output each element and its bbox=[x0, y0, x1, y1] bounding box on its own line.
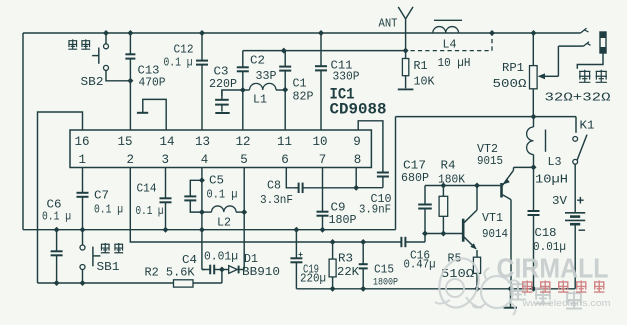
label C12 bbox=[174, 44, 194, 57]
svg-text:0.1 µ: 0.1 µ bbox=[94, 204, 123, 217]
svg-text:1800P: 1800P bbox=[373, 278, 398, 289]
node R3 bottom bbox=[330, 286, 336, 292]
label 0.1 µ (C6) bbox=[42, 211, 71, 224]
capacitor C17 bbox=[418, 186, 432, 234]
diode D1 BB910 varactor bbox=[222, 266, 244, 274]
svg-text:SB2: SB2 bbox=[81, 76, 104, 89]
capacitor C8 bbox=[293, 183, 356, 193]
capacitor C10 bbox=[377, 170, 389, 188]
label SB1 bbox=[97, 261, 120, 274]
svg-text:+: + bbox=[298, 250, 303, 260]
pin numbers bottom row 1-8 bbox=[79, 153, 362, 167]
label L4 bbox=[443, 39, 457, 52]
resistor R5 bbox=[473, 257, 480, 289]
wire VT2 emitter to L3 bottom bbox=[514, 166, 534, 168]
svg-text:0.1 µ: 0.1 µ bbox=[136, 205, 164, 218]
capacitor C3 bbox=[215, 90, 229, 112]
svg-text:C4: C4 bbox=[182, 254, 197, 267]
wire dashed bypass around L4 bbox=[411, 34, 493, 51]
svg-text:www.elecfans.com: www.elecfans.com bbox=[521, 298, 610, 309]
resistor R2 bbox=[174, 280, 194, 287]
antenna ANT bbox=[398, 7, 413, 51]
svg-text:330P: 330P bbox=[333, 71, 360, 84]
label D1 bbox=[244, 253, 258, 266]
label 0.01µ bbox=[204, 251, 238, 264]
wire pin 8 bbox=[355, 168, 357, 188]
watermark 电子发烧友 red hanzi bbox=[522, 280, 605, 292]
svg-text:14: 14 bbox=[159, 135, 174, 149]
wire bus B jog up to base line bbox=[424, 234, 426, 243]
svg-text:6: 6 bbox=[281, 153, 289, 167]
ground (bus C) bbox=[504, 289, 518, 308]
wire pin 3 / capacitor C14 bbox=[160, 168, 172, 230]
capacitor C13 bbox=[125, 33, 135, 130]
label 510Ω bbox=[441, 268, 474, 281]
svg-text:K1: K1 bbox=[580, 120, 595, 133]
wire left vertical from top bus bbox=[22, 33, 24, 230]
transistor VT2 9015 (PNP) bbox=[502, 167, 514, 288]
svg-text:2: 2 bbox=[127, 153, 135, 167]
svg-text:500Ω: 500Ω bbox=[493, 78, 527, 91]
resistor R1 bbox=[402, 51, 408, 89]
label L3 bbox=[548, 156, 562, 169]
wire riser bus A to +3V rail bbox=[395, 117, 397, 230]
capacitor C15 bbox=[359, 242, 368, 289]
wiper arrow of RP1 bbox=[538, 46, 559, 79]
svg-text:32Ω+32Ω: 32Ω+32Ω bbox=[545, 92, 611, 105]
svg-text:15: 15 bbox=[117, 135, 132, 149]
capacitor C16 in bus B bbox=[401, 237, 425, 247]
wire bus A (common rail, y=229.7) bbox=[23, 229, 396, 231]
inductor L4 bbox=[433, 20, 462, 33]
svg-text:9015: 9015 bbox=[477, 155, 503, 168]
svg-text:R4: R4 bbox=[441, 160, 456, 173]
svg-text:C2: C2 bbox=[250, 55, 265, 68]
svg-text:0.47µ: 0.47µ bbox=[404, 259, 436, 272]
capacitor C11 bbox=[315, 33, 327, 130]
inductor L2 bbox=[202, 206, 244, 212]
label 10K bbox=[414, 76, 435, 89]
wire pin 4 vertical bbox=[201, 168, 203, 270]
wire reset bus D y=283 bbox=[38, 282, 222, 284]
node dashed-link top on top bus bbox=[489, 30, 495, 36]
label − (battery) bbox=[578, 224, 586, 239]
inductor L1 bbox=[243, 83, 285, 90]
svg-text:L3: L3 bbox=[548, 156, 562, 169]
label 220P bbox=[209, 78, 237, 91]
label 470P bbox=[139, 77, 166, 90]
node RP1 top on top bus bbox=[531, 30, 537, 36]
svg-text:9: 9 bbox=[353, 135, 361, 149]
jack contact tick (top bus) bbox=[581, 28, 589, 33]
label BB910 bbox=[242, 266, 280, 279]
label C11 bbox=[331, 60, 353, 73]
node C11 top on top bus bbox=[318, 30, 324, 36]
wire ground bus C y=288.8 bbox=[296, 288, 575, 290]
label 0.47µ bbox=[404, 259, 436, 272]
node C6 bottom bbox=[54, 280, 60, 286]
svg-text:L2: L2 bbox=[217, 217, 231, 230]
svg-text:10: 10 bbox=[312, 135, 327, 149]
node C19 top bbox=[293, 227, 299, 233]
capacitor C19 electrolytic bbox=[290, 230, 303, 289]
svg-text:C1: C1 bbox=[293, 78, 307, 91]
svg-text:BB910: BB910 bbox=[242, 266, 280, 279]
node C1 top bbox=[281, 48, 287, 54]
watermark leaf swirl left bbox=[433, 253, 485, 312]
svg-text:3: 3 bbox=[162, 153, 170, 167]
node VT2 collector on bus C bbox=[508, 286, 514, 292]
label C1 bbox=[293, 78, 307, 91]
label 180P bbox=[329, 214, 357, 227]
label C6 bbox=[47, 199, 62, 212]
ground (C3) bbox=[215, 112, 229, 114]
node antenna junction bbox=[403, 48, 409, 54]
label VT1 bbox=[482, 212, 503, 225]
label 22K bbox=[337, 266, 359, 279]
svg-text:3.9nF: 3.9nF bbox=[359, 204, 391, 217]
wire pin 2 to audio bus B bbox=[130, 168, 401, 243]
potentiometer RP1 bbox=[530, 33, 538, 117]
label 3V bbox=[552, 195, 567, 208]
svg-text:3V: 3V bbox=[552, 195, 567, 208]
svg-text:16: 16 bbox=[74, 135, 89, 149]
svg-text:C15: C15 bbox=[374, 264, 394, 277]
svg-text:8: 8 bbox=[354, 153, 362, 167]
wire rail corner down to K1 bbox=[575, 117, 577, 133]
label 耳机 (headphones) bbox=[579, 70, 607, 83]
watermark url bbox=[521, 298, 610, 309]
label K1 bbox=[580, 120, 595, 133]
node C15 bottom bbox=[360, 286, 366, 292]
node C17 bottom bbox=[422, 231, 428, 237]
node SB1 bottom bbox=[80, 280, 86, 286]
ground (R1) bbox=[398, 88, 414, 90]
wire pin4 down to C4 bbox=[202, 269, 205, 271]
label C4 bbox=[182, 254, 197, 267]
label 33P bbox=[256, 70, 277, 83]
label 0.1 µ (C14) bbox=[136, 205, 164, 218]
node R3 top on bus B bbox=[330, 239, 336, 245]
label L2 bbox=[217, 217, 231, 230]
label 3.9nF bbox=[359, 204, 391, 217]
node L1 left (pin 12 net) bbox=[240, 87, 246, 93]
capacitor C18 bbox=[528, 167, 540, 288]
battery 3V bbox=[565, 213, 585, 289]
svg-text:+: + bbox=[577, 194, 585, 209]
label ANT bbox=[379, 18, 398, 31]
node pin8/C8/C10 junction bbox=[353, 185, 359, 191]
svg-text:0.01µ: 0.01µ bbox=[204, 251, 238, 264]
watermark 电路城 gray hanzi bbox=[510, 282, 582, 309]
wire tank top link y=50.6 bbox=[243, 50, 406, 52]
label 3.3nF bbox=[260, 194, 293, 207]
label 0.1 µ (C5) bbox=[207, 189, 238, 202]
switch SB1 (reset) bbox=[80, 230, 100, 283]
svg-text:7: 7 bbox=[319, 153, 327, 167]
node C4/D1 junction bbox=[219, 267, 225, 273]
label C17 bbox=[403, 160, 426, 173]
svg-text:R2 5.6K: R2 5.6K bbox=[145, 267, 195, 280]
svg-text:C14: C14 bbox=[137, 183, 157, 196]
svg-text:0.1 µ: 0.1 µ bbox=[42, 211, 71, 224]
svg-text:C9: C9 bbox=[331, 202, 346, 215]
svg-text:10 µH: 10 µH bbox=[438, 57, 471, 70]
transistor VT1 9014 (NPN) bbox=[463, 186, 477, 258]
label L1 bbox=[253, 94, 267, 107]
wire collector line y=185.5 bbox=[425, 185, 500, 187]
svg-text:13: 13 bbox=[195, 135, 210, 149]
svg-text:22K: 22K bbox=[337, 266, 359, 279]
label 0.1 µ (C12) bbox=[164, 57, 193, 70]
svg-text:0.1 µ: 0.1 µ bbox=[207, 189, 238, 202]
node R4 top bbox=[440, 183, 446, 189]
watermark CIRMALL bbox=[497, 253, 609, 284]
node C12 top on top bus bbox=[199, 30, 205, 36]
node L2 right on pin 5 bbox=[241, 209, 247, 215]
wire pin12 lower bbox=[242, 90, 244, 130]
wire base line bbox=[425, 233, 462, 235]
label 220µ bbox=[300, 273, 326, 286]
watermark flower swirl right bbox=[472, 268, 520, 315]
wire C3 branch bbox=[222, 90, 243, 96]
label RP1 bbox=[502, 62, 524, 75]
label SB2 bbox=[81, 76, 104, 89]
label 1800P bbox=[373, 278, 398, 289]
pin numbers top row 16-9 bbox=[74, 135, 360, 149]
node R4 bottom bbox=[440, 231, 446, 237]
svg-text:220µ: 220µ bbox=[300, 273, 326, 286]
svg-text:12: 12 bbox=[235, 135, 250, 149]
svg-text:9014: 9014 bbox=[482, 228, 508, 241]
label 10 µH bbox=[438, 57, 471, 70]
label C7 bbox=[94, 190, 109, 203]
label 180K bbox=[438, 174, 465, 187]
label 9014 bbox=[482, 228, 508, 241]
label C2 bbox=[250, 55, 265, 68]
label C10 bbox=[371, 193, 392, 206]
node SB2 wire joins C13 bbox=[127, 78, 133, 84]
headphone plug bbox=[600, 32, 607, 54]
svg-text:SB1: SB1 bbox=[97, 261, 120, 274]
resistor R3 bbox=[329, 242, 336, 289]
svg-text:33P: 33P bbox=[256, 70, 277, 83]
node L1 right (pin 11 net) bbox=[282, 87, 288, 93]
svg-text:VT1: VT1 bbox=[482, 212, 503, 225]
label 9015 bbox=[477, 155, 503, 168]
ground (pin 14) bbox=[137, 112, 148, 114]
label CD9088 bbox=[330, 101, 387, 119]
svg-text:11: 11 bbox=[277, 135, 292, 149]
label C18 bbox=[535, 227, 557, 240]
wire junction down to reset bus bbox=[221, 270, 223, 284]
node C14 bottom bbox=[163, 227, 169, 233]
node VT1 collector junction bbox=[474, 183, 480, 189]
label R5 bbox=[448, 253, 462, 266]
svg-text:−: − bbox=[578, 224, 586, 239]
op-amp IC1 CD9088 body bbox=[70, 130, 371, 168]
wire jack middle contact bbox=[558, 45, 583, 47]
wire top bus (headphone return), y=33 bbox=[23, 32, 581, 34]
node C6 top bbox=[54, 227, 60, 233]
label R1 bbox=[414, 60, 428, 73]
label 330P bbox=[333, 71, 360, 84]
svg-text:5: 5 bbox=[240, 153, 248, 167]
label C14 bbox=[137, 183, 157, 196]
label 0.1 µ (C7) bbox=[94, 204, 123, 217]
svg-text:4: 4 bbox=[201, 153, 209, 167]
svg-text:R3: R3 bbox=[338, 253, 353, 266]
label C15 bbox=[374, 264, 394, 277]
svg-text:180P: 180P bbox=[329, 214, 357, 227]
svg-text:ANT: ANT bbox=[379, 18, 398, 31]
label 复位 (reset) bbox=[101, 243, 123, 253]
wire pin 6 to C8 bbox=[286, 168, 293, 188]
svg-text:10µH: 10µH bbox=[535, 174, 568, 187]
wire pin 7 / capacitor C9 bbox=[317, 168, 329, 230]
wire pin11 lower bbox=[284, 90, 286, 130]
label VT2 bbox=[477, 143, 498, 156]
svg-text:680P: 680P bbox=[401, 172, 429, 185]
svg-text:C18: C18 bbox=[535, 227, 557, 240]
svg-text:C7: C7 bbox=[94, 190, 109, 203]
label + (battery) bbox=[577, 194, 585, 209]
capacitor C1 bbox=[279, 51, 291, 90]
wire pin 5 vertical bbox=[243, 168, 245, 270]
svg-text:3.3nF: 3.3nF bbox=[260, 194, 293, 207]
svg-text:CD9088: CD9088 bbox=[330, 101, 387, 119]
label 32Ω+32Ω bbox=[545, 92, 611, 105]
label C3 bbox=[214, 66, 229, 79]
svg-text:C12: C12 bbox=[174, 44, 194, 57]
svg-text:C17: C17 bbox=[403, 160, 426, 173]
label R3 bbox=[338, 253, 353, 266]
wire +3V switched rail y=116.6 bbox=[396, 116, 577, 118]
label C8 bbox=[267, 180, 281, 193]
capacitor C5 (loop left of pin 4) bbox=[184, 180, 202, 212]
node L3 bottom / VT2 emitter bbox=[531, 164, 537, 170]
label 680P bbox=[401, 172, 429, 185]
label R4 bbox=[441, 160, 456, 173]
svg-text:C5: C5 bbox=[209, 175, 224, 188]
node C5/L2 bottom on pin 4 bbox=[199, 209, 205, 215]
wire pin 16 to reset bus bbox=[38, 112, 83, 283]
capacitor C2 bbox=[237, 51, 249, 90]
switch SB2 (tuning) bbox=[92, 33, 130, 81]
svg-text:1: 1 bbox=[79, 153, 87, 167]
wire K1 to battery + bbox=[574, 164, 576, 213]
node rail/RP1/L3 junction bbox=[531, 114, 537, 120]
label C9 bbox=[331, 202, 346, 215]
node C7/SB1 top bbox=[80, 227, 86, 233]
wire jack sleeve stub bbox=[577, 53, 603, 69]
label 82P bbox=[293, 91, 314, 104]
svg-text:CIRMALL: CIRMALL bbox=[497, 253, 609, 284]
capacitor C12 bbox=[196, 33, 208, 130]
node C15 top on bus B bbox=[360, 239, 366, 245]
svg-text:L4: L4 bbox=[443, 39, 457, 52]
capacitor C6 bbox=[51, 230, 63, 283]
label C19 bbox=[303, 264, 319, 277]
label C5 bbox=[209, 175, 224, 188]
svg-text:82P: 82P bbox=[293, 91, 314, 104]
svg-text:0.1 µ: 0.1 µ bbox=[164, 57, 193, 70]
label IC1 bbox=[330, 86, 355, 104]
wire pin 14 to ground bbox=[143, 99, 166, 130]
wire C10 to pin 8 node bbox=[356, 187, 383, 189]
inductor L3 bbox=[527, 117, 546, 168]
label R2 5.6K bbox=[145, 267, 195, 280]
svg-text:C3: C3 bbox=[214, 66, 229, 79]
capacitor C4 bbox=[202, 265, 222, 275]
label C13 bbox=[138, 65, 160, 78]
node SB2 top on top bus bbox=[103, 30, 109, 36]
wire pin 1 / capacitor C7 bbox=[77, 168, 89, 230]
label 0.01µ (C18) bbox=[533, 241, 566, 254]
svg-text:220P: 220P bbox=[209, 78, 237, 91]
svg-text:470P: 470P bbox=[139, 77, 166, 90]
node C5 top on pin 4 bbox=[199, 177, 205, 183]
svg-text:L1: L1 bbox=[253, 94, 267, 107]
svg-text:C8: C8 bbox=[267, 180, 281, 193]
svg-text:RP1: RP1 bbox=[502, 62, 524, 75]
jack contact tick (middle) bbox=[584, 42, 591, 46]
node C13 top on top bus bbox=[127, 30, 133, 36]
wire pin 9 step bbox=[358, 121, 383, 170]
svg-text:D1: D1 bbox=[244, 253, 258, 266]
label 10µH (L3) bbox=[535, 174, 568, 187]
resistor R4 bbox=[439, 186, 448, 234]
svg-text:R1: R1 bbox=[414, 60, 428, 73]
node C18 bottom bbox=[531, 286, 537, 292]
label C16 bbox=[410, 250, 430, 263]
node C9 bottom bbox=[320, 227, 326, 233]
switch K1 bbox=[573, 135, 587, 165]
node R5 bottom bbox=[474, 286, 480, 292]
label 500Ω bbox=[493, 78, 527, 91]
label 调谐 (tuning) bbox=[68, 39, 90, 49]
svg-text:10K: 10K bbox=[414, 76, 435, 89]
node pin4 on bus A bbox=[199, 227, 205, 233]
